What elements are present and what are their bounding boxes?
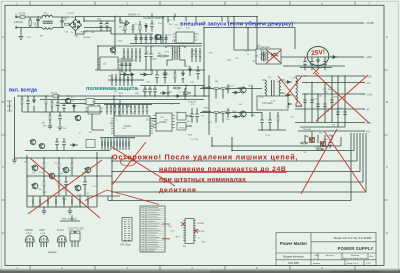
svg-text:100n: 100n (314, 146, 320, 148)
TO-220 package outline (68, 228, 84, 248)
capacitor C11 (155, 70, 159, 84)
ATX connector 20pin (120, 218, 132, 247)
svg-text:W04: W04 (328, 89, 333, 91)
capacitor C30 (226, 84, 229, 94)
diode D30 (174, 95, 184, 98)
ground symbol chassis (16, 28, 23, 40)
optocoupler U7 (177, 123, 186, 131)
capacitor C7 (132, 24, 135, 33)
svg-text:A: A (2, 35, 4, 39)
svg-text:100n: 100n (186, 27, 192, 29)
component value labels layer (24, 13, 343, 244)
svg-text:Abit KB#: Abit KB# (288, 261, 299, 265)
svg-text:Power Master: Power Master (280, 241, 308, 246)
svg-text:1N4007 x4: 1N4007 x4 (128, 13, 140, 16)
wire main bus y96 (17, 95, 209, 97)
wire choke to bridge (53, 17, 70, 28)
capacitor CX2 (60, 17, 64, 28)
25V! red circle annotation (307, 47, 329, 66)
ground symbol left (12, 160, 17, 163)
wire frame verticals (27, 152, 97, 207)
TITLE BLOCK (276, 233, 376, 266)
svg-text:P.G.: P.G. (366, 131, 371, 134)
svg-text:+3.3V: +3.3V (366, 94, 373, 97)
svg-text:W04: W04 (66, 170, 71, 172)
svg-text:напряжение поднимается до 24В: напряжение поднимается до 24В (159, 166, 286, 173)
capacitor C26 (190, 108, 194, 123)
capacitor C21 (62, 104, 66, 113)
rectifier D22 (285, 81, 292, 106)
resistor R61 (43, 158, 45, 176)
capacitor C27 (195, 108, 199, 123)
wire vertical x248 (247, 28, 249, 50)
wire y27.6 extension (111, 27, 295, 29)
svg-text:делителя: делителя (159, 187, 197, 194)
svg-text:внешний запуск (если уберем д: внешний запуск (если уберем дежурку) (180, 20, 293, 27)
transistor Q1 (154, 34, 160, 39)
svg-text:вкл. всегда: вкл. всегда (9, 88, 37, 94)
wire bus y192 (112, 191, 366, 193)
wire lower aux bus (84, 27, 111, 29)
transistor Q8 (30, 139, 36, 144)
capacitor C50 (328, 140, 331, 148)
transistor Q4 (239, 87, 246, 93)
wire y112 left (22, 111, 40, 113)
zener D10 (317, 57, 320, 70)
svg-text:13007 TO-220: 13007 TO-220 (68, 228, 84, 231)
wire PG rail (298, 130, 364, 132)
wire +3.3V rail (302, 93, 364, 95)
wire stub y67 (300, 67, 332, 69)
junction dots (101, 17, 115, 22)
capacitor C47 (260, 112, 264, 131)
wire gnd stub (60, 215, 80, 221)
wire -12V rail (295, 122, 364, 124)
svg-text:1 Off: 1 Off (366, 263, 371, 265)
capacitor C9 C10 (144, 46, 153, 71)
capacitor C13 (303, 57, 307, 70)
wire bus y70 (95, 69, 205, 71)
ground symbol G5 (68, 207, 73, 214)
svg-text:100n: 100n (58, 173, 64, 175)
svg-text:выводы: выводы (48, 251, 57, 254)
diode D32 (33, 96, 36, 112)
resistor R44 R45 vertical (216, 89, 223, 123)
capacitor C42 (316, 104, 320, 107)
red X over protection block (28, 158, 102, 218)
wire channel1 rail (200, 88, 252, 90)
diode D11 (330, 56, 338, 59)
capacitor C20 (56, 97, 60, 112)
svg-text:TL431: TL431 (57, 229, 64, 232)
main transformer T4 (262, 77, 285, 107)
transistor Q3 (75, 115, 81, 120)
wire +5V rail (302, 82, 364, 84)
svg-text:+5VSB: +5VSB (197, 223, 204, 225)
red X over standby box (266, 50, 282, 64)
rail labels (366, 76, 373, 134)
resistor array R10-R14 (123, 48, 141, 62)
resistor R1 discharge (29, 17, 31, 28)
svg-text:СЕТЕВОЙ ФИЛЬТР: СЕТЕВОЙ ФИЛЬТР (143, 17, 165, 20)
wire into standby box (234, 28, 295, 50)
optocoupler U6 (177, 113, 186, 121)
wire main HV bus top (84, 16, 257, 18)
extra density aux lower (110, 47, 200, 79)
svg-text:Sheet 1 of 1: Sheet 1 of 1 (347, 262, 359, 265)
wire PWM outputs (114, 96, 192, 126)
svg-text:100n: 100n (323, 139, 329, 141)
resistor R51 (300, 142, 308, 144)
svg-text:F1 5A: F1 5A (19, 13, 26, 16)
resistor R64 (43, 176, 45, 196)
comparator U2 (153, 113, 175, 131)
wire mid rail (27, 175, 97, 177)
diode D25 (70, 144, 78, 147)
capacitor C22 (58, 112, 62, 126)
capacitor row C60s (134, 34, 167, 44)
capacitor C54 (83, 176, 87, 196)
wire bus y150.5 (232, 150, 354, 152)
transistor Q12 (48, 173, 54, 179)
capacitor C43 (323, 104, 327, 107)
capacitor C14 (310, 57, 314, 70)
svg-text:1N4148: 1N4148 (303, 129, 311, 131)
svg-text:болт (корпус): болт (корпус) (62, 218, 77, 221)
magamp box (257, 96, 288, 110)
svg-text:Лист: Лист (315, 255, 319, 257)
common-mode choke L1 (42, 12, 53, 30)
transistor Q5 (239, 111, 246, 117)
resistor array R30s (106, 105, 148, 115)
resistors R15 R16 (191, 48, 201, 62)
svg-text:100n: 100n (232, 111, 238, 113)
IC U5 (85, 106, 103, 114)
wire stubs left (108, 137, 232, 201)
wire bus y46 (98, 45, 202, 47)
bulk capacitor C6 (105, 21, 112, 31)
diode D15 (73, 104, 76, 112)
wire aux out bus (283, 65, 345, 67)
top comp row: capacitor C23 (143, 86, 147, 97)
small red x over diode (313, 68, 319, 74)
fuse F1 (19, 13, 26, 19)
extra density top-middle (108, 17, 228, 100)
resistor R71 (157, 55, 169, 57)
capacitor CX1 (33, 17, 40, 28)
wire bus y171.5 (112, 171, 360, 173)
svg-text:100n: 100n (90, 104, 96, 106)
NTC thermistor (62, 23, 71, 27)
svg-text:100n: 100n (33, 206, 39, 208)
svg-text:e c b: e c b (40, 232, 46, 235)
fuse F2 (51, 92, 59, 97)
svg-text:Изменил: Изменил (351, 255, 360, 257)
wire stair v4 (362, 133, 364, 182)
wire drop to standby box (256, 17, 258, 50)
svg-text:1N4148: 1N4148 (179, 128, 187, 130)
bulk capacitor C5 (98, 18, 106, 31)
wire stair v1 (353, 133, 355, 151)
wire bus y200.5 (108, 133, 351, 201)
wire chassis vertical (14, 97, 16, 160)
transistor Q9 (39, 143, 45, 148)
IC U3 (97, 57, 121, 70)
transistor outline TL431 (57, 229, 66, 247)
svg-text:Number: Number (313, 263, 320, 265)
capacitor C41 (310, 100, 314, 103)
svg-text:B: B (2, 100, 4, 104)
wire bottom rail (27, 206, 97, 208)
transistor outline 2N5551 (25, 229, 34, 247)
transformer T3 (166, 41, 185, 67)
op-amp U1 TL494 (111, 116, 153, 136)
resistor R62 (58, 158, 60, 176)
svg-text:1N4148: 1N4148 (83, 37, 91, 39)
resistor row R66s (33, 196, 88, 207)
resistor R23 (173, 87, 181, 89)
svg-text:100n: 100n (184, 66, 190, 68)
diode D16 (160, 92, 170, 95)
wire stair v3 (359, 133, 361, 172)
PWM resistor array top bus (104, 104, 152, 106)
resistor array R60s (102, 138, 129, 150)
resistor R63 (71, 158, 73, 176)
transistor Q16 (110, 47, 116, 52)
wire cluster links (305, 131, 332, 143)
resistor R21 (51, 100, 53, 113)
bridge rectifier BR1 (70, 16, 82, 31)
resistor R42 (214, 112, 219, 114)
wire strip bus (25, 138, 135, 151)
wire stair v2 (356, 133, 358, 161)
capacitor C65 (26, 96, 30, 112)
wire bottom y130 (258, 129, 286, 131)
red X middle (112, 142, 175, 186)
wire +25V rail (281, 56, 364, 58)
transistor Q14 (74, 185, 80, 191)
resistor R3 (139, 21, 141, 34)
capacitor C25 (153, 86, 157, 97)
wire y43 (130, 43, 202, 45)
svg-text:+5V: +5V (366, 82, 371, 85)
inductor L2 (202, 87, 211, 89)
wire bottom rail y112 (40, 111, 102, 113)
svg-text:-5V: -5V (366, 109, 370, 112)
wire stair v5 (365, 133, 367, 192)
wire vertical drop x163 (162, 17, 164, 45)
resistor R65 (58, 176, 60, 196)
svg-text:POWER SUPPLY: POWER SUPPLY (338, 246, 374, 251)
svg-text:1N4148: 1N4148 (74, 206, 82, 208)
output cap bank verticals (305, 76, 345, 127)
svg-text:+5VSB: +5VSB (366, 22, 374, 25)
left frame stub marks (7, 101, 12, 111)
diode row D5-D8 (120, 70, 152, 76)
ground symbol G3 (58, 127, 63, 130)
svg-text:Вадим Качалов: Вадим Качалов (283, 255, 304, 259)
red X over output section (315, 73, 369, 123)
diode D2 (145, 23, 148, 32)
svg-text:1N4148: 1N4148 (188, 101, 196, 103)
wire bus y146 (212, 137, 341, 146)
wire vertical x92 (92, 114, 104, 130)
svg-text:100n: 100n (164, 120, 170, 122)
wire interconnect (213, 85, 262, 117)
resistor R43 (221, 112, 226, 114)
IC U9 (173, 32, 197, 43)
wire bus y127 bottom of caps (300, 126, 345, 128)
capacitor C44 (330, 100, 334, 103)
red ellipse around part (121, 158, 136, 166)
capacitor C45 (336, 112, 340, 115)
aux connector J2 (181, 219, 204, 249)
wire N line (16, 27, 42, 29)
wire vertical x234 (233, 17, 235, 51)
wire y80 row (108, 79, 144, 81)
svg-text:e b c: e b c (26, 232, 32, 235)
standby transformer box T2 (256, 46, 281, 64)
rail end dots (363, 76, 365, 131)
diode D20 (232, 91, 240, 94)
svg-text:Section 1: Section 1 (326, 254, 335, 257)
capacitor C12 (163, 70, 167, 84)
resistor R50 (277, 112, 279, 130)
wire bridge + rail (76, 17, 116, 22)
wire aux row (111, 28, 153, 34)
resistor R24 (183, 92, 191, 94)
wire bus y99.5 (40, 99, 204, 101)
zener D9 (182, 70, 185, 83)
pin name table (140, 206, 170, 252)
transistor Q11 (31, 183, 37, 189)
wire bus y161 (112, 160, 357, 162)
wire top rail (27, 157, 97, 159)
wire links to right (15, 158, 121, 196)
small parts row y85-95 (168, 86, 195, 96)
resistor R40 (214, 88, 219, 90)
resistor R41 (221, 88, 226, 90)
svg-text:F2 1A: F2 1A (51, 92, 58, 95)
ground symbol G2 (48, 126, 53, 129)
svg-text:~220VAC: ~220VAC (13, 21, 23, 24)
wire y85 (140, 85, 205, 87)
capacitor C15 (323, 57, 327, 70)
bottom scan shadow band (0, 270, 400, 273)
transistor outline C945 (39, 229, 48, 247)
transistor Q10 (31, 165, 37, 171)
svg-text:Model: FA-5-2 Ver 3.2 300W: Model: FA-5-2 Ver 3.2 300W (334, 236, 372, 240)
transistor Q6 (309, 137, 315, 142)
transistor Q2 (65, 98, 71, 103)
svg-text:ATX 20pin: ATX 20pin (120, 244, 132, 247)
capacitor C52 (62, 138, 66, 151)
capacitor C46 (343, 112, 347, 115)
resistor R2 (124, 23, 126, 34)
capacitor C51 (55, 138, 59, 151)
wire bus y103.5 (60, 103, 180, 105)
capacitor C48 (268, 112, 272, 131)
svg-text:W04: W04 (204, 108, 209, 110)
bus up-stubs (152, 14, 175, 17)
diode D21 (232, 115, 240, 118)
svg-text:при штатных номиналах: при штатных номиналах (159, 177, 246, 184)
diode D1 1N4007 (119, 17, 129, 26)
resistor R20 (45, 96, 47, 112)
wire -5V rail (295, 108, 364, 110)
svg-text:+22V: +22V (366, 56, 372, 59)
capacitor C8 (150, 20, 153, 32)
resistor row R70s (112, 74, 132, 86)
capacitor C40 (303, 100, 307, 103)
wire bus y182 (112, 181, 363, 183)
capacitor C64 (196, 66, 200, 80)
svg-text:25V!: 25V! (311, 49, 326, 57)
red X right-low (301, 129, 366, 194)
ground symbol G6 (163, 70, 168, 76)
svg-text:100n: 100n (227, 60, 233, 62)
inductor L3 (202, 111, 211, 113)
input terminal circles (15, 16, 17, 18)
wire bridge - rail (76, 31, 112, 34)
small rect U8 (86, 140, 95, 148)
svg-text:A: A (386, 35, 388, 39)
wire L line (16, 16, 42, 18)
small red marks on cluster (309, 137, 326, 147)
red diagonal bottom-middle (85, 190, 159, 205)
resistor R17 (174, 70, 176, 83)
resistor R22 (49, 112, 51, 126)
wire low rail (27, 195, 97, 197)
transistor Q15 (84, 167, 90, 173)
ground symbol G4 (42, 207, 47, 214)
svg-text:Осторожно! После удаления лишн: Осторожно! После удаления лишних цепей, (112, 153, 298, 162)
output choke L4 (296, 76, 302, 106)
wire +12V rail (302, 75, 364, 77)
transistor Q7 (320, 141, 326, 146)
svg-text:B: B (386, 100, 388, 104)
wire channel2 rail (200, 112, 252, 114)
resistor R72 (21, 96, 23, 112)
capacitor C24 (148, 86, 152, 97)
svg-text:Джованни Вадим Качалов: Джованни Вадим Качалов (343, 258, 367, 260)
wire verticals into bus (98, 28, 209, 135)
diode D31 (189, 66, 192, 76)
capacitor C31 (226, 108, 229, 118)
capacitor C63 (183, 88, 187, 100)
resistor R52 (316, 148, 324, 150)
capacitor C61 C62 (120, 58, 131, 72)
red X over rectifier (278, 76, 302, 106)
transistor Q13 (62, 167, 68, 173)
wire vertical drop x115 (114, 17, 116, 56)
svg-text:Rev: Rev (370, 256, 374, 258)
optocoupler U4 (86, 99, 94, 105)
junction stubs (168, 17, 228, 25)
capacitor C53 (64, 176, 68, 196)
svg-text:W04: W04 (333, 97, 338, 99)
wire +5VSB rail (230, 22, 364, 24)
